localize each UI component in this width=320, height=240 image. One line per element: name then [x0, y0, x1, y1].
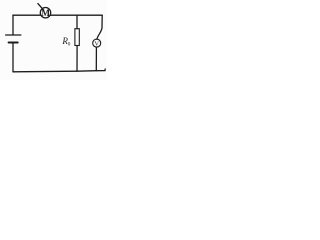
svg-text:0: 0: [68, 41, 71, 47]
svg-text:V: V: [94, 40, 99, 47]
svg-text:M: M: [41, 9, 50, 19]
